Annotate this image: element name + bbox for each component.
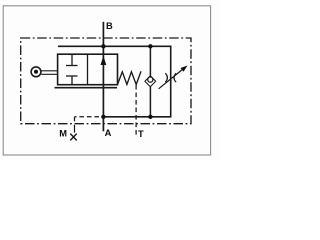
svg-text:M: M bbox=[59, 129, 67, 139]
svg-text:T: T bbox=[138, 129, 144, 139]
svg-text:B: B bbox=[106, 21, 113, 31]
svg-text:A: A bbox=[105, 128, 112, 138]
